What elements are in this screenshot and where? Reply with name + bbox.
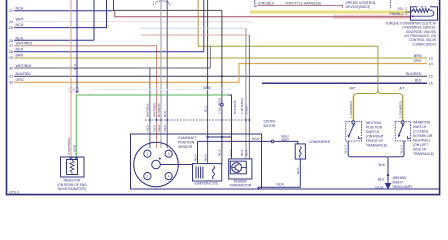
label wire 26 xyxy=(9,36,24,43)
svg-text:NCA: NCA xyxy=(277,183,285,187)
power transistor box xyxy=(229,159,252,179)
wire 22 NCA xyxy=(14,10,114,12)
inhibitor switch arm xyxy=(402,124,404,126)
junction dot at distributor box bottom xyxy=(257,187,259,189)
label RESISTOR xyxy=(57,179,87,191)
arrowhead on navy wire at C122 xyxy=(76,91,79,94)
label wire 25 xyxy=(9,23,24,30)
svg-text:IN PARK OR: IN PARK OR xyxy=(413,134,433,138)
camshaft position sensor circle xyxy=(134,142,179,187)
svg-text:CONDENSER: CONDENSER xyxy=(309,140,331,144)
wire condenser down to junction xyxy=(258,159,300,189)
wire gray top row from vertical x=113.5 to corner x=221.9 xyxy=(114,0,222,10)
rotor xyxy=(152,160,161,169)
svg-text:NCA: NCA xyxy=(252,137,260,141)
svg-text:22: 22 xyxy=(9,9,13,13)
svg-text:ORG: ORG xyxy=(16,78,24,82)
svg-text:BLK 2: BLK 2 xyxy=(343,145,347,154)
svg-text:HEADLAMP): HEADLAMP) xyxy=(393,185,413,189)
svg-text:WHT/RED: WHT/RED xyxy=(152,102,156,117)
svg-text:1 WHT/BLK: 1 WHT/BLK xyxy=(240,97,244,114)
label wire 24 xyxy=(9,17,24,24)
sensor cap terminal 2 xyxy=(144,173,151,180)
wire 28 NCA xyxy=(14,51,204,53)
svg-text:TRANSAXLE): TRANSAXLE) xyxy=(366,144,387,148)
svg-text:FRONT OF: FRONT OF xyxy=(366,139,383,143)
throttle harness bracket xyxy=(255,0,257,7)
wire pale mid row to transistor xyxy=(140,27,246,29)
wire NCA horizontal y=141.4 to condenser xyxy=(198,141,298,144)
TCC terminal dots xyxy=(411,10,413,12)
svg-text:BLK/WHT: BLK/WHT xyxy=(233,100,237,114)
wire salmon mid row to transistor xyxy=(141,34,249,36)
wire horizontal y=137 from BLU to transistor xyxy=(208,136,232,138)
svg-text:NEUTRAL): NEUTRAL) xyxy=(413,139,430,143)
svg-text:31: 31 xyxy=(9,75,13,79)
junction dot ground wire xyxy=(387,174,389,176)
svg-text:NCA: NCA xyxy=(296,167,300,174)
svg-text:32: 32 xyxy=(9,81,13,85)
svg-text:2: 2 xyxy=(147,174,149,178)
svg-text:BLU/WHT: BLU/WHT xyxy=(157,103,161,117)
svg-text:LOWER BODY): LOWER BODY) xyxy=(413,42,436,46)
svg-text:TRANSAXLE): TRANSAXLE) xyxy=(413,152,434,156)
wire sensor blue vertical x=167.2 xyxy=(166,0,168,148)
transistor symbol xyxy=(232,163,242,173)
svg-text:G102: G102 xyxy=(375,185,383,189)
label BEHIND RIGHT HEADLAMP xyxy=(393,176,413,189)
svg-text:BLU: BLU xyxy=(73,64,77,70)
svg-text:THROTTLE HARNESS): THROTTLE HARNESS) xyxy=(285,1,321,5)
svg-text:WHT/BLK: WHT/BLK xyxy=(146,102,150,117)
wire BLK from neutral switch to ground junction xyxy=(348,141,388,183)
svg-text:NCA: NCA xyxy=(203,154,207,161)
wire 30 WHT/BLK row with branch to sensor xyxy=(14,67,210,69)
svg-text:NCA: NCA xyxy=(244,149,248,156)
svg-text:WHT/BLK: WHT/BLK xyxy=(16,64,33,68)
label YEL 2 xyxy=(397,7,407,11)
svg-text:DISTRI-: DISTRI- xyxy=(264,120,276,124)
svg-text:SWITCH: SWITCH xyxy=(413,125,427,129)
svg-text:2 WHT/RED: 2 WHT/RED xyxy=(67,137,71,155)
svg-text:1: 1 xyxy=(405,12,407,16)
ground symbol G102 xyxy=(385,183,392,190)
wire YEL highlight band to TCC xyxy=(250,10,411,14)
wire YEL stub into TCC pin2 xyxy=(406,11,413,13)
neutral position switch box xyxy=(346,121,362,141)
svg-text:(ORG/BLK: (ORG/BLK xyxy=(258,1,275,5)
svg-text:NCA: NCA xyxy=(16,36,24,40)
svg-text:NCA: NCA xyxy=(229,149,233,156)
svg-text:27: 27 xyxy=(9,44,13,48)
svg-text:NCA: NCA xyxy=(218,149,222,156)
svg-text:TCC: TCC xyxy=(420,6,428,10)
svg-text:25: 25 xyxy=(9,26,13,30)
wire PNK/BLU maroon to TCC xyxy=(115,11,411,17)
svg-text:BLK: BLK xyxy=(379,163,386,167)
label NEUTRAL POSITION SWITCH xyxy=(366,121,387,148)
connector C122 marks xyxy=(69,88,74,93)
svg-text:ORG: ORG xyxy=(413,59,421,63)
label wire 30 xyxy=(9,64,32,71)
label wire 22 xyxy=(9,6,24,13)
svg-text:24: 24 xyxy=(9,20,13,24)
svg-text:SIDE OF: SIDE OF xyxy=(413,148,427,152)
wire BLK 16 thick right xyxy=(262,82,427,84)
svg-text:WHT/RED: WHT/RED xyxy=(16,41,33,45)
svg-text:14: 14 xyxy=(429,62,433,66)
svg-text:BLK/RED: BLK/RED xyxy=(406,72,422,76)
svg-text:INHIBITOR: INHIBITOR xyxy=(413,121,431,125)
svg-text:NCA: NCA xyxy=(240,149,244,156)
resistor terminals xyxy=(70,157,78,158)
inhibitor switch box xyxy=(395,121,410,141)
svg-text:16: 16 xyxy=(429,82,433,86)
label wire 29 left xyxy=(9,54,23,61)
label wire BLK/RED right pin 15 xyxy=(406,72,433,79)
svg-text:(CLOSED: (CLOSED xyxy=(413,130,429,134)
svg-text:NEUTRAL: NEUTRAL xyxy=(366,121,382,125)
wire olive split to both switches xyxy=(353,46,378,120)
svg-text:1 GRN/RED: 1 GRN/RED xyxy=(349,100,353,118)
label CAMSHAFT POSITION SENSOR xyxy=(178,136,197,149)
svg-text:WHT: WHT xyxy=(282,138,290,142)
svg-text:(BEHIND: (BEHIND xyxy=(393,176,407,180)
label PNK/BLU 1 xyxy=(389,12,407,16)
label INHIBITOR SWITCH xyxy=(413,121,434,157)
wire rotor to ignition coil xyxy=(160,164,192,166)
svg-text:BRN: BRN xyxy=(414,54,422,58)
label wire BLK right pin 16 xyxy=(415,79,433,86)
svg-text:NCA: NCA xyxy=(16,23,24,27)
wire coil feed vertical x=197.5 xyxy=(197,141,199,163)
svg-text:26: 26 xyxy=(9,39,13,43)
wire salmon vertical x=72 from top to resistor xyxy=(70,0,72,157)
svg-text:29: 29 xyxy=(9,56,13,60)
connector arc at top of sensor wires xyxy=(153,1,171,5)
sensor cap terminal 4 xyxy=(165,173,172,180)
wire 26 NCA xyxy=(14,39,94,41)
svg-text:2: 2 xyxy=(405,7,407,11)
label torque converter clutch block xyxy=(385,21,437,46)
ignition coil windings xyxy=(196,166,215,179)
svg-text:NCA: NCA xyxy=(16,47,24,51)
wire BLU vertical x=208.7 to ignition coil xyxy=(207,95,209,164)
speed control device dashed bracket xyxy=(390,0,392,8)
svg-text:(ON LEFT: (ON LEFT xyxy=(413,143,428,147)
label sensor wire colors above connector xyxy=(146,97,249,117)
svg-text:POSITION: POSITION xyxy=(366,126,383,130)
svg-text:15: 15 xyxy=(429,75,433,79)
wire BLK from inhibitor switch to ground junction xyxy=(388,141,404,157)
svg-text:NEAR RADIATOR): NEAR RADIATOR) xyxy=(58,187,86,191)
label ORG/BLK THROTTLE HARNESS xyxy=(258,1,321,5)
svg-text:BLK: BLK xyxy=(415,79,422,83)
label wire 28 xyxy=(9,47,24,54)
condenser box xyxy=(295,144,305,159)
label NCA on transistor wires xyxy=(218,149,249,156)
svg-text:WHT: WHT xyxy=(16,17,25,21)
svg-text:BLU: BLU xyxy=(163,111,167,117)
label resistor wires xyxy=(67,137,76,155)
svg-text:NCA: NCA xyxy=(163,124,167,131)
svg-text:1 GRN: 1 GRN xyxy=(72,145,76,154)
inline connector circle on BLU/RED wire xyxy=(221,103,224,106)
svg-text:(ON RIGHT: (ON RIGHT xyxy=(366,135,384,139)
svg-text:30: 30 xyxy=(9,67,13,71)
wire ground bus from distributor to right border xyxy=(262,188,440,190)
distributor box xyxy=(131,134,262,189)
svg-text:SWITCH: SWITCH xyxy=(366,130,380,134)
condenser symbol xyxy=(299,147,301,158)
svg-text:BRN: BRN xyxy=(16,54,24,58)
label wire BRN right pin 13 xyxy=(414,54,433,61)
svg-text:SENSOR: SENSOR xyxy=(178,145,193,149)
label NCA below connector on sensor wires xyxy=(146,124,167,131)
power transistor inner box xyxy=(230,161,246,174)
svg-text:BLU: BLU xyxy=(203,106,207,112)
TCC solenoid box xyxy=(411,7,438,20)
ignition coil box xyxy=(193,164,222,181)
wire sensor gray vertical x=161 xyxy=(160,0,162,148)
sensor cap terminal 3 xyxy=(165,150,172,157)
svg-text:4: 4 xyxy=(168,174,170,178)
svg-text:1 GRN/RED: 1 GRN/RED xyxy=(398,100,402,118)
wire vertical navy x=94 from top to row 26 xyxy=(93,0,95,40)
svg-text:YEL: YEL xyxy=(397,7,403,11)
wire black vertical x=221.9 to ignition coil xyxy=(221,10,223,163)
svg-text:3: 3 xyxy=(168,152,170,156)
sensor cap terminal 1 xyxy=(144,150,151,157)
label BLK/WHT near condenser xyxy=(282,135,290,143)
svg-text:DEVICE(NICO): DEVICE(NICO) xyxy=(346,5,371,9)
svg-text:NCA: NCA xyxy=(16,6,24,10)
wire faint pale row above green xyxy=(90,89,232,91)
label wire ORG right pin 14 xyxy=(413,59,432,66)
svg-text:1: 1 xyxy=(147,152,149,156)
svg-text:BLK/RED: BLK/RED xyxy=(16,72,32,76)
resistor inner box xyxy=(67,160,78,175)
TCC coil element xyxy=(412,9,433,16)
wire olive from top to transaxle switches xyxy=(198,0,378,46)
svg-text:IGNITION COIL: IGNITION COIL xyxy=(195,181,219,185)
wire 24 WHT xyxy=(14,21,253,23)
svg-text:BUTOR: BUTOR xyxy=(264,124,276,128)
svg-text:28: 28 xyxy=(9,50,13,54)
resistor zigzag xyxy=(70,160,74,174)
label SPEED CONTROL DEVICE xyxy=(346,1,377,9)
svg-text:I9510: I9510 xyxy=(9,190,20,195)
wire 27 WHT/RED turning down to sensor xyxy=(14,46,157,148)
wire dark vertical x=207.6 from top xyxy=(207,0,209,95)
wire green row to transistor corner xyxy=(76,95,228,157)
svg-text:NCA: NCA xyxy=(157,124,161,131)
svg-text:A/T: A/T xyxy=(399,87,404,91)
resistor box xyxy=(61,157,85,177)
label POWER TRANSISTOR xyxy=(229,179,251,187)
junction dot wire31 x=221.9 xyxy=(221,75,223,77)
label DISTRIBUTOR xyxy=(264,120,276,129)
dashed connector line y=120 xyxy=(145,119,251,121)
svg-text:13: 13 xyxy=(429,56,433,60)
svg-text:NCA: NCA xyxy=(193,154,197,161)
svg-text:GRN: GRN xyxy=(203,86,211,90)
svg-text:TRANSISTOR: TRANSISTOR xyxy=(229,183,251,187)
inhibitor switch terminal xyxy=(401,121,404,124)
wire 29 BRN full width xyxy=(14,57,427,59)
svg-text:NCA: NCA xyxy=(152,124,156,131)
svg-text:POSITION: POSITION xyxy=(178,141,195,145)
neutral position switch terminal xyxy=(352,121,355,124)
svg-text:RIGHT: RIGHT xyxy=(393,181,404,185)
wire 25 NCA with corner up at x=107 xyxy=(14,0,107,28)
svg-text:BLK 2: BLK 2 xyxy=(400,145,404,154)
svg-text:NCA: NCA xyxy=(146,124,150,131)
junction dot BLU x=208.7 y=137 xyxy=(206,136,208,138)
junction dot x=221.9 y=137 xyxy=(221,136,223,138)
wire 31 BLK/RED full width xyxy=(14,75,427,77)
wire 32 ORG with Z-bend up at x=239 xyxy=(14,64,427,83)
svg-text:BLK: BLK xyxy=(378,177,385,181)
wire pale band on switch branch wires xyxy=(352,95,355,121)
wire navy vertical x=78 to connector C122 xyxy=(76,0,78,92)
label wire 27 xyxy=(9,41,33,48)
label wire 31 left xyxy=(9,72,31,79)
connector pin ticks xyxy=(150,119,250,122)
svg-text:PNK/BLU: PNK/BLU xyxy=(389,12,404,16)
svg-text:CAMSHAFT: CAMSHAFT xyxy=(178,136,197,140)
label NCA coil wires xyxy=(193,154,207,161)
svg-text:M/T: M/T xyxy=(350,87,356,91)
throttle harness underline xyxy=(258,6,343,8)
svg-text:1 BLU/RED: 1 BLU/RED xyxy=(218,97,222,114)
wire vertical x=210.4 row30 to pale yellow row xyxy=(209,46,211,68)
svg-text:2 BLK: 2 BLK xyxy=(244,105,248,114)
connector circle on NCA line xyxy=(271,140,274,143)
wire dark vertical x=203.6 to row28 xyxy=(203,0,205,52)
label wire 32 left xyxy=(9,78,24,85)
wire PNK highlight band near TCC xyxy=(333,15,411,19)
neutral position switch arm xyxy=(353,124,355,126)
